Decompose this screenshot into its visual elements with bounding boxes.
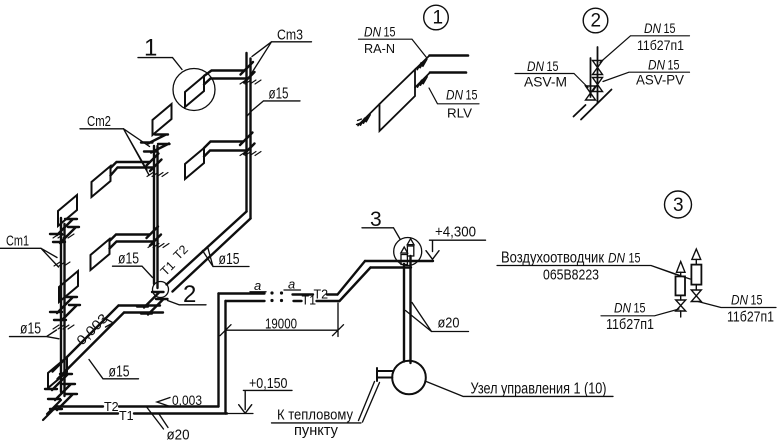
svg-text:Cm2: Cm2	[87, 113, 111, 130]
svg-text:T2: T2	[171, 242, 191, 262]
label leader phi15 bottom-left	[89, 360, 139, 379]
label leader phi15 Cm1	[10, 330, 60, 339]
wire R3a return pipe	[204, 79, 248, 85]
svg-text:DN: DN	[608, 251, 625, 266]
svg-text:a: a	[254, 278, 261, 293]
label leader phi20 bottom	[147, 408, 168, 430]
wire R3b supply pipe	[204, 142, 244, 149]
svg-text:15: 15	[384, 25, 396, 40]
riser Cm3 supply line	[245, 53, 247, 212]
hatch at R2b connection	[147, 173, 168, 177]
valve RLV zigzag	[418, 77, 428, 88]
label leader Cm3	[249, 42, 312, 78]
svg-text:ASV-M: ASV-M	[524, 74, 567, 90]
wire zigzag knot at Cm1 bottom band 2	[48, 384, 75, 400]
wire detail 1 return pipe	[430, 71, 466, 74]
wire R1b break-connection band 1	[50, 297, 77, 313]
valve RA-N zigzag	[417, 59, 427, 69]
riser Cm1 supply line	[60, 218, 62, 392]
svg-text:DN: DN	[364, 25, 381, 40]
wire R2c supply jog	[147, 227, 159, 239]
label leader 3	[362, 228, 400, 239]
valve ASV-PV bowtie	[593, 78, 603, 92]
text labels main drawing	[6, 27, 607, 444]
hatch at R1a connection	[53, 234, 74, 238]
wire bottom main T1 (right of label)	[134, 412, 227, 414]
svg-text:DN: DN	[527, 59, 544, 74]
wire R1a break-connection band 1	[50, 219, 77, 235]
wire upper main T1 to section break	[226, 300, 265, 302]
svg-text:ø20: ø20	[438, 315, 460, 332]
wire bottom main T2 (right of label)	[119, 405, 219, 407]
svg-text:T1: T1	[302, 294, 317, 308]
svg-text:15: 15	[634, 301, 646, 316]
radiator R1b	[59, 271, 78, 302]
radiator R2a at riser Cm2 top	[153, 104, 172, 135]
wire top horizontal T1	[371, 266, 412, 268]
wire horizontal run below node 2 (lower)	[124, 311, 163, 313]
wire R3b supply jog	[240, 133, 253, 146]
wire right vertical pair up from bottom main (T2)	[217, 294, 219, 407]
wire thin extension of T1 to elevation arrow	[227, 413, 253, 415]
valve below right vent	[695, 285, 697, 290]
hatch marks are grouped with connections	[53, 80, 261, 329]
wire R2b supply pipe	[111, 162, 151, 168]
wire R1a break-connection band 2	[53, 227, 79, 243]
wire T2 diagonal rise to air vent node	[338, 261, 366, 295]
node section break dots	[270, 291, 283, 302]
node detail 1 circle	[424, 5, 449, 30]
svg-text:Воздухоотводчик: Воздухоотводчик	[501, 250, 605, 267]
wire upper main T2 to section break	[219, 292, 265, 294]
radiator R2b	[92, 166, 111, 197]
radiator R3a (circled, detail 1 reference)	[185, 76, 204, 107]
label leader uzel upravlenija	[425, 381, 613, 396]
label leader DN15 ASV-PV	[603, 72, 690, 81]
svg-text:1: 1	[433, 8, 444, 29]
valve bottom-left end dart	[357, 119, 362, 125]
label leader phi20 right	[406, 303, 469, 332]
svg-text:2: 2	[183, 281, 196, 308]
svg-text:Узел управления 1 (10): Узел управления 1 (10)	[471, 381, 607, 398]
svg-text:3: 3	[673, 195, 684, 216]
wire diagonal main T2 from Cm3 to node 2	[167, 212, 247, 285]
label leader phi15 Cm2 mid	[113, 266, 153, 277]
label leader k teplovomu punktu	[272, 382, 380, 423]
hatch at R3b connection	[240, 152, 261, 156]
label leader DN15 11b27p1 right	[698, 302, 776, 308]
hatch at Cm1 mid connection	[53, 325, 74, 329]
svg-text:15: 15	[466, 88, 478, 103]
label leader Cm2	[80, 129, 150, 175]
svg-text:ø20: ø20	[167, 427, 190, 444]
wire control unit inlet stub upper	[377, 370, 394, 372]
wire R3a supply jog at riser	[241, 62, 254, 75]
hatch at R3a connection	[240, 80, 261, 84]
wire vertical drop pipe 2 to control unit	[409, 256, 411, 363]
riser Cm3 return line	[249, 59, 251, 219]
svg-text:Cm1: Cm1	[6, 233, 29, 250]
label leader DN15 ASV-M	[515, 74, 588, 88]
svg-text:К тепловому: К тепловому	[277, 407, 353, 424]
valve 11b27p1 bowtie	[593, 61, 603, 75]
svg-text:15: 15	[629, 251, 641, 266]
node 2 small circle at junction	[153, 282, 169, 298]
wire R3b return pipe	[204, 151, 248, 157]
elevation mark +0,150	[239, 390, 292, 413]
svg-text:15: 15	[751, 293, 763, 308]
svg-text:RA-N: RA-N	[364, 41, 395, 56]
air vent left rectangle	[676, 276, 686, 295]
svg-text:ø15: ø15	[118, 251, 139, 268]
label leader a section mark 2	[284, 289, 301, 291]
wire R2a break-connection band 2	[144, 144, 170, 153]
air vent right triangle	[692, 249, 701, 259]
label leader DN15 11b27p1 bottom left	[601, 309, 679, 316]
label leader DN15 11b27p1	[600, 36, 690, 63]
svg-text:DN: DN	[446, 88, 463, 103]
wire R3a return jog at riser	[244, 72, 255, 83]
valve bottom-left connector diagonal	[358, 104, 380, 126]
elevation mark +4,300	[426, 240, 486, 259]
svg-text:a: a	[288, 277, 295, 292]
svg-text:15: 15	[668, 58, 680, 73]
air vent left in node 3	[401, 255, 407, 265]
riser Cm2 return line	[156, 146, 158, 288]
dimension line 19000	[220, 303, 344, 337]
label leader phi15 top	[248, 101, 301, 116]
wire upper main T1 resumed	[294, 300, 340, 302]
label leader 1	[138, 58, 182, 70]
radiator R2c	[91, 239, 110, 270]
svg-text:ø15: ø15	[20, 321, 41, 338]
wire top horizontal T2 at +4,300	[365, 260, 433, 262]
svg-text:ø15: ø15	[219, 251, 240, 268]
air vent left triangle	[677, 262, 686, 273]
svg-text:11б27п1: 11б27п1	[606, 317, 654, 333]
svg-text:15: 15	[547, 59, 559, 74]
wire R2c return jog	[150, 235, 161, 246]
wire R2b return jog	[150, 160, 162, 172]
node 3 circle around air vents	[394, 238, 422, 266]
svg-text:1: 1	[144, 35, 157, 62]
wire stub end cap	[376, 368, 378, 381]
wire R2b supply jog	[147, 154, 159, 166]
wire horizontal run below node 2 (upper)	[119, 304, 161, 306]
valve ASV-M bowtie	[586, 86, 596, 100]
hatch at R2c connection	[148, 244, 169, 248]
radiator R3b	[185, 148, 204, 179]
wire zigzag knot at Cm1 bottom band 3	[50, 394, 77, 410]
valve below left vent	[680, 295, 682, 300]
wire diagonal main T1 from Cm3 to node 2	[173, 219, 251, 292]
hatch at Cm1 leader area	[54, 262, 70, 266]
svg-text:0,003: 0,003	[172, 392, 202, 408]
wire R2c return pipe	[110, 242, 154, 249]
svg-text:ASV-PV: ASV-PV	[636, 72, 685, 88]
node detail 3 circle	[665, 191, 692, 218]
wire detail 2 vertical pipe right	[597, 47, 599, 103]
wire R2c supply pipe	[110, 235, 150, 242]
svg-text:3: 3	[370, 208, 382, 231]
wire Z-termination of bottom main ends	[43, 400, 61, 420]
riser Cm2 supply line	[153, 146, 155, 284]
wire diagonal main to Cm1 (lower)	[58, 313, 125, 380]
svg-text:DN: DN	[731, 293, 748, 308]
svg-text:2: 2	[591, 11, 602, 32]
svg-text:+4,300: +4,300	[435, 224, 476, 241]
label leader vozduhootvodchik	[497, 266, 690, 280]
label leader 2	[168, 301, 207, 305]
svg-text:DN: DN	[648, 58, 665, 73]
wire diagonal main to Cm1 (upper, slope 0.003)	[53, 306, 119, 372]
radiator R1c	[48, 357, 67, 388]
wire detail 1 supply pipe	[430, 54, 469, 57]
svg-text:пункту: пункту	[294, 422, 338, 439]
wire vertical drop pipe 1 to control unit	[403, 264, 405, 362]
radiator detail 1	[380, 70, 416, 132]
slope wedge on diagonal 0,003	[106, 319, 114, 327]
label leader DN15 RLV	[429, 88, 479, 104]
air vent right rectangle	[691, 265, 701, 285]
wire R1b break-connection band 2	[54, 305, 80, 321]
wire right vertical pair up from bottom main (T1)	[224, 301, 226, 414]
wire control unit inlet stub lower	[377, 377, 392, 379]
label leader a section mark 1	[250, 291, 266, 293]
wire break band below node 2 (band 1)	[137, 292, 164, 308]
radiator R1a	[58, 195, 77, 226]
slope wedge bottom 0,003	[157, 398, 170, 407]
svg-text:T2: T2	[104, 400, 119, 414]
svg-text:ø15: ø15	[109, 364, 130, 381]
valve RA-N connector diagonal	[415, 56, 430, 70]
wire zigzag knot at Cm1 bottom band 1	[45, 374, 72, 390]
svg-text:RLV: RLV	[447, 106, 472, 121]
wire R2b return pipe	[111, 168, 154, 176]
air vent right in node 3	[407, 246, 413, 256]
node detail circle 1 around radiator R3a	[173, 69, 215, 111]
label leader DN15 RA-N	[359, 39, 427, 57]
valve bottom-left zigzag	[361, 115, 371, 126]
svg-text:+0,150: +0,150	[249, 375, 288, 392]
svg-text:11б27п1: 11б27п1	[637, 37, 684, 53]
wire upper main T2 resumed	[293, 293, 338, 295]
svg-text:19000: 19000	[265, 316, 297, 333]
svg-text:11б27п1: 11б27п1	[727, 310, 774, 326]
label leader Cm1	[0, 248, 59, 267]
wire R2a break-connection band 1	[141, 135, 168, 144]
svg-text:Cm3: Cm3	[277, 27, 303, 44]
valve RLV connector diagonal	[415, 73, 430, 88]
svg-text:DN: DN	[614, 301, 631, 316]
svg-text:15: 15	[664, 21, 676, 36]
label leader phi15 diagonal	[203, 247, 250, 267]
svg-text:ø15: ø15	[269, 86, 289, 103]
wire T1 diagonal rise to air vent node	[340, 268, 371, 302]
svg-text:0,003: 0,003	[74, 311, 111, 348]
svg-text:T1: T1	[119, 409, 134, 423]
wire R3b return jog	[244, 144, 255, 155]
node detail 2 circle	[583, 8, 608, 33]
wire detail 2 vertical pipe left	[590, 58, 592, 97]
wire bottom main T1 (left of label)	[60, 412, 118, 414]
svg-text:065B8223: 065B8223	[543, 267, 599, 284]
riser Cm1 return line	[63, 224, 65, 396]
svg-text:DN: DN	[644, 21, 661, 36]
wire detail 2 break line long	[581, 90, 612, 120]
wire detail 2 break line short	[574, 105, 586, 117]
control unit circle U1	[392, 361, 426, 395]
wire bottom main T2 (left of label)	[56, 405, 103, 407]
wire R3a supply pipe	[204, 71, 244, 77]
wire break band below node 2 (band 2)	[141, 299, 168, 315]
